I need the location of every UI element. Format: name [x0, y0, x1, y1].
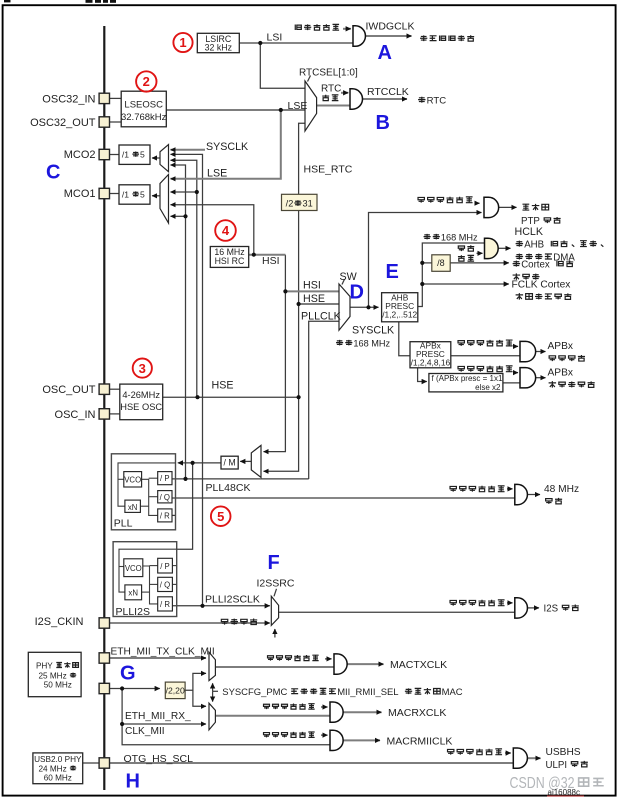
svg-text:SYSCLK: SYSCLK: [352, 324, 395, 336]
svg-text:4-26MHz: 4-26MHz: [122, 390, 160, 400]
svg-text:Cortex: Cortex: [521, 260, 550, 271]
svg-text:RTC: RTC: [427, 96, 447, 107]
svg-text:LSE: LSE: [207, 168, 227, 180]
svg-text:168 MHz: 168 MHz: [441, 232, 478, 242]
svg-text:OTG_HS_SCL: OTG_HS_SCL: [124, 753, 194, 765]
svg-text:xN: xN: [128, 503, 138, 512]
svg-text:32 kHz: 32 kHz: [205, 43, 232, 53]
svg-text:PTP: PTP: [521, 216, 540, 227]
svg-text:PHY: PHY: [36, 661, 53, 670]
svg-text:E: E: [386, 261, 399, 283]
svg-text:/1: /1: [122, 150, 129, 160]
svg-text:MAC: MAC: [442, 687, 463, 698]
svg-text:HCLK: HCLK: [515, 226, 544, 238]
svg-text:B: B: [376, 112, 390, 134]
svg-text:APBx: APBx: [548, 367, 573, 378]
svg-text:G: G: [120, 663, 136, 685]
svg-text:LSEOSC: LSEOSC: [124, 100, 163, 111]
svg-text:MACRMIICLK: MACRMIICLK: [387, 736, 453, 748]
svg-text:ai16088c: ai16088c: [548, 788, 580, 797]
svg-text:RTCCLK: RTCCLK: [367, 86, 409, 98]
svg-text:/2: /2: [286, 199, 294, 209]
svg-text:VCO: VCO: [124, 475, 141, 484]
svg-text:168 MHz: 168 MHz: [353, 338, 390, 348]
svg-text:PLLI2SCLK: PLLI2SCLK: [205, 594, 260, 606]
svg-text:/ P: / P: [160, 474, 170, 483]
svg-text:/8: /8: [437, 258, 445, 268]
svg-text:50 MHz: 50 MHz: [44, 681, 72, 690]
svg-text:OSC32_OUT: OSC32_OUT: [30, 117, 96, 129]
svg-text:HSE OSC: HSE OSC: [120, 402, 162, 412]
svg-text:PLL48CK: PLL48CK: [206, 482, 251, 494]
svg-text:/ M: / M: [223, 458, 235, 468]
svg-text:HSI: HSI: [262, 255, 280, 267]
svg-text:RTCSEL[1:0]: RTCSEL[1:0]: [299, 67, 358, 78]
svg-text:48 MHz: 48 MHz: [544, 484, 579, 495]
svg-text:OSC_OUT: OSC_OUT: [42, 384, 95, 396]
svg-text:/2,20: /2,20: [166, 686, 185, 696]
svg-text:D: D: [350, 282, 364, 304]
svg-text:I2SSRC: I2SSRC: [257, 578, 295, 590]
svg-text:PLLCLK: PLLCLK: [301, 310, 342, 322]
svg-text:MCO2: MCO2: [64, 149, 96, 161]
svg-text:PLL: PLL: [114, 518, 133, 530]
svg-text:ETH_MII_TX_CLK_MII: ETH_MII_TX_CLK_MII: [111, 647, 215, 658]
svg-text:A: A: [378, 42, 392, 64]
svg-text:HSE_RTC: HSE_RTC: [304, 164, 353, 176]
svg-text:MACRXCLK: MACRXCLK: [388, 707, 446, 719]
svg-text:SYSCFG_PMC: SYSCFG_PMC: [222, 687, 287, 698]
svg-text:MII_RMII_SEL: MII_RMII_SEL: [337, 687, 398, 698]
svg-text:OSC_IN: OSC_IN: [55, 409, 96, 421]
svg-text:SYSCLK: SYSCLK: [206, 141, 249, 153]
svg-text:HSI: HSI: [303, 280, 321, 292]
svg-text:24 MHz: 24 MHz: [38, 764, 66, 773]
svg-text:31: 31: [303, 199, 313, 209]
svg-text:ETH_MII_RX_: ETH_MII_RX_: [125, 711, 191, 722]
svg-text:2: 2: [143, 74, 150, 89]
svg-text:F: F: [268, 552, 280, 574]
svg-text:32.768kHz: 32.768kHz: [121, 112, 167, 123]
svg-text:60 MHz: 60 MHz: [44, 773, 72, 782]
svg-text:/ R: / R: [160, 600, 170, 609]
svg-text:LSE: LSE: [288, 100, 308, 112]
svg-text:IWDGCLK: IWDGCLK: [366, 21, 415, 33]
svg-text:APBx: APBx: [548, 341, 573, 352]
svg-text:4: 4: [222, 223, 230, 238]
svg-text:5: 5: [217, 509, 224, 524]
svg-text:VCO: VCO: [125, 564, 142, 573]
svg-text:I2S: I2S: [544, 604, 559, 615]
svg-text:/ P: / P: [160, 562, 170, 571]
svg-text:5: 5: [140, 189, 145, 199]
svg-text:OSC32_IN: OSC32_IN: [42, 93, 95, 105]
svg-text:AHB: AHB: [524, 240, 544, 251]
svg-text:/1,2,4,8,16: /1,2,4,8,16: [411, 357, 451, 367]
svg-text:USBHS: USBHS: [546, 747, 581, 758]
svg-text:25 MHz: 25 MHz: [38, 671, 66, 680]
svg-text:/ Q: / Q: [160, 493, 170, 502]
svg-text:SW: SW: [340, 271, 358, 283]
svg-text:xN: xN: [128, 589, 138, 598]
svg-text:RTC: RTC: [321, 84, 341, 95]
svg-text:/1: /1: [122, 189, 129, 199]
svg-text:HSI RC: HSI RC: [215, 256, 245, 266]
svg-text:HSE: HSE: [303, 293, 325, 305]
svg-text:LSI: LSI: [267, 32, 283, 44]
svg-text:PLLI2S: PLLI2S: [116, 606, 150, 618]
svg-text:FCLK Cortex: FCLK Cortex: [512, 280, 571, 291]
svg-text:/1,2,..512: /1,2,..512: [382, 309, 417, 319]
svg-text:1: 1: [179, 35, 186, 50]
svg-text:USB2.0 PHY: USB2.0 PHY: [34, 755, 82, 764]
svg-text:MCO1: MCO1: [64, 188, 96, 200]
svg-text:CLK_MII: CLK_MII: [125, 726, 165, 737]
svg-text:ULPI: ULPI: [546, 760, 568, 771]
svg-text:else x2: else x2: [475, 383, 501, 392]
svg-text:MACTXCLK: MACTXCLK: [390, 659, 447, 671]
svg-text:C: C: [46, 162, 60, 184]
svg-text:3: 3: [139, 361, 146, 376]
svg-text:I2S_CKIN: I2S_CKIN: [35, 616, 84, 628]
svg-text:/ Q: / Q: [160, 581, 170, 590]
svg-text:H: H: [126, 771, 140, 793]
svg-text:/ R: / R: [160, 511, 170, 520]
svg-text:HSE: HSE: [212, 380, 234, 392]
svg-text:5: 5: [140, 150, 145, 160]
